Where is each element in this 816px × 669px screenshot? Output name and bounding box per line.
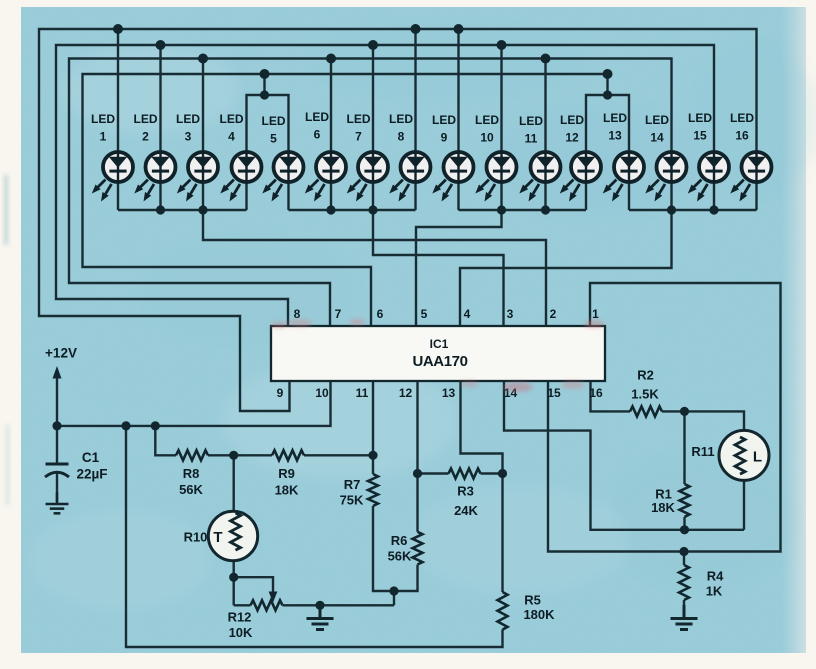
wire ground stub mid: [319, 605, 321, 617]
wire cathode group 1-4 to pin 2: [203, 210, 546, 326]
wire anode bus D (LED4,5,12,13 to pin 6): [83, 74, 608, 326]
wire pin 14 to R1/R11 bottom: [504, 381, 744, 530]
wire R7 bottom: [373, 506, 394, 591]
LED D1: [91, 112, 133, 202]
LED D5: [262, 114, 304, 202]
wire cathode rail LED5-8: [289, 209, 416, 211]
wire R10 top lead: [232, 455, 234, 511]
wire anode bus B (LED2,7,10,15 to pin 8): [56, 45, 714, 326]
node bus A dots: [113, 24, 123, 34]
wire pin 11 to R7: [372, 381, 374, 474]
wire pin 16 to R2: [591, 381, 631, 411]
resistor R3: [449, 469, 481, 519]
wire pin 12 to R6: [416, 381, 418, 532]
resistor R7: [340, 474, 378, 508]
node R4 top junction: [679, 547, 688, 556]
potentiometer R12: [228, 592, 283, 641]
wire R10 wiper loop: [234, 577, 273, 592]
LED D4: [220, 112, 262, 202]
wire R11 bottom lead: [743, 480, 745, 530]
wire cathode group 9-12 to pin 5: [416, 210, 502, 326]
LED D8: [389, 112, 431, 202]
scan grain: [0, 0, 1, 1]
wire pin 13 to R3 node and R5: [461, 381, 503, 592]
wire cathode group 5-8 to pin 3: [373, 210, 504, 326]
node R6 R7 junction: [389, 586, 398, 595]
wire R3 leads: [418, 472, 503, 474]
LED D10: [475, 113, 517, 202]
wire R6 bottom: [394, 565, 418, 591]
right lighter scan band: [0, 0, 1, 1]
node R3 left junction: [413, 469, 422, 478]
wire cathode rail LED1-4: [118, 209, 247, 211]
wire cathode rail LED9-12: [459, 209, 587, 211]
power +12V: [45, 346, 77, 379]
ground below C1: [46, 493, 69, 514]
LED D15: [688, 111, 729, 202]
wire LED top leads: [118, 29, 546, 151]
node +12V rail dots: [52, 421, 61, 430]
LED D7: [347, 112, 389, 202]
wire anode bus A (LED1,8,9,16 to pin 9): [39, 29, 757, 411]
resistor R4: [679, 565, 724, 600]
wire R12 line: [234, 604, 394, 606]
wire rail drop to bottom rail and R5 bottom: [126, 426, 503, 647]
wire R10 bottom lead: [232, 561, 234, 605]
node R8 R9 R10 junction: [229, 451, 238, 460]
ground mid (R12 line): [307, 605, 334, 630]
wire bridge LED12-LED13: [586, 95, 629, 151]
lamp R11: [691, 430, 769, 480]
node bus B dots: [156, 40, 166, 50]
resistor R5: [498, 592, 556, 630]
node R2 R1 R11 junction: [680, 407, 689, 416]
LED D2: [134, 112, 176, 202]
wire R1 leads: [683, 411, 685, 529]
ground below R4: [671, 605, 698, 630]
node cathode rail dots: [156, 205, 165, 214]
resistor R8: [176, 450, 208, 497]
wire +12V stem: [56, 374, 58, 463]
LED D16: [730, 111, 772, 202]
resistor R2: [630, 368, 662, 417]
wire bridge LED4-LED5: [247, 74, 289, 151]
wire cathode group 13-16 to pin 4: [460, 210, 672, 326]
node bridge dots: [260, 90, 269, 99]
resistor R6: [388, 532, 423, 565]
LED D6: [305, 110, 346, 202]
resistor R1: [651, 484, 689, 517]
wire R9 to pin11 line: [304, 454, 373, 456]
node ground tap junction: [315, 601, 324, 610]
thermistor R10: [184, 511, 258, 560]
LED D11: [519, 114, 561, 202]
LED D12: [560, 113, 601, 202]
scan smudges: [271, 319, 604, 392]
node R10 bottom junction: [229, 573, 238, 582]
LED D14: [645, 113, 687, 202]
wire anode bus C (LED3,6,11,14 to pin 7): [69, 59, 672, 327]
node R9 pin11 junction: [368, 451, 377, 460]
node R1 bottom junction: [680, 525, 689, 534]
capacitor C1: [45, 464, 69, 477]
wire C1 lower lead: [56, 474, 58, 503]
node R3 right junction: [498, 469, 507, 478]
resistor R9: [272, 450, 304, 497]
op-amp U1 body (IC1 UAA170): [271, 326, 605, 381]
LED D3: [176, 112, 218, 202]
wire pin 1 to pin 15 loop: [548, 283, 781, 552]
wire LED bottom leads: [118, 184, 757, 211]
wire cathode rail LED13-16: [629, 209, 757, 211]
wire R8-R10-R9 node: [208, 454, 272, 456]
wire pin 10 to +12V rail: [57, 381, 331, 426]
wire R2 to R11 top: [662, 411, 744, 430]
node bus D dots: [260, 69, 270, 79]
wire R4 top lead: [683, 552, 685, 566]
LED D13: [603, 111, 644, 202]
wire R8 feed: [155, 426, 176, 455]
node bus C dots: [198, 54, 208, 64]
wire R4 bottom lead: [683, 600, 685, 617]
wire R6R7 node down to R12 line: [393, 591, 395, 605]
LED D9: [432, 113, 474, 202]
